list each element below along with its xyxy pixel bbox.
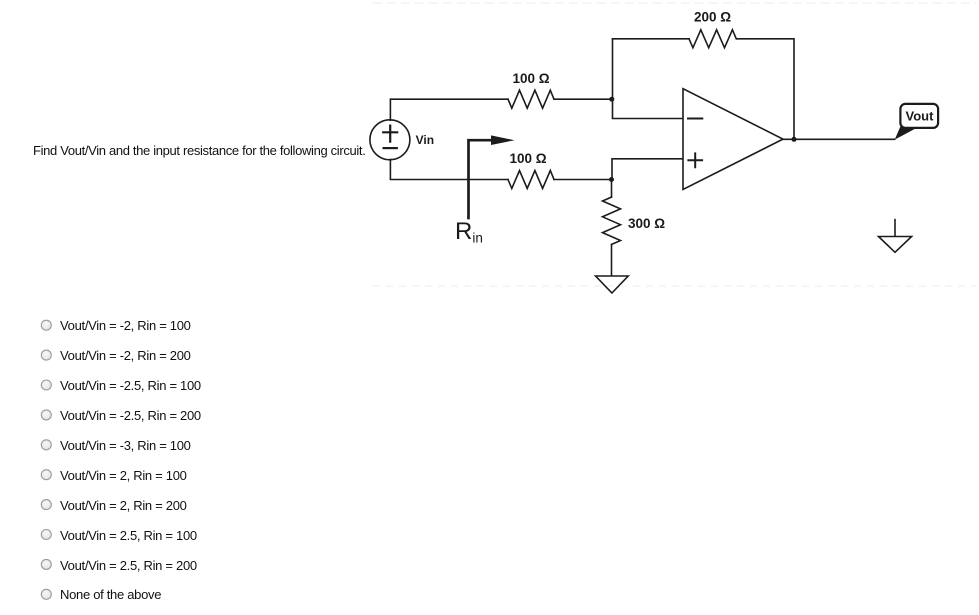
ground (output reference) — [879, 220, 912, 253]
wire source bottom to R 100 ohm lower — [390, 159, 508, 179]
resistor 200 ohm (feedback) — [689, 30, 736, 48]
op-amp U1 — [683, 89, 783, 190]
ground (below 300 ohm) — [596, 276, 629, 293]
svg-text:300 Ω: 300 Ω — [628, 216, 665, 231]
svg-text:100 Ω: 100 Ω — [510, 151, 547, 166]
svg-text:Rin: Rin — [455, 218, 483, 245]
svg-text:Vout: Vout — [906, 109, 935, 124]
node B (non-inverting input node) — [609, 177, 614, 182]
flag Vout — [895, 104, 938, 140]
wire op-amp output — [783, 138, 895, 140]
question text — [33, 143, 365, 158]
answer options — [60, 317, 191, 333]
wire R lower to node B — [554, 179, 612, 181]
Rin measurement arrow — [469, 135, 515, 218]
voltage source Vin — [370, 120, 410, 160]
svg-text:100 Ω: 100 Ω — [513, 71, 550, 86]
wire feedback right down to output node — [737, 39, 795, 140]
wire node B up to non-inverting input — [612, 159, 683, 180]
svg-text:200 Ω: 200 Ω — [694, 10, 731, 25]
wire resistor 300 ohm to ground — [611, 245, 613, 277]
wire node A down to inverting input — [613, 39, 684, 119]
resistor 300 ohm — [603, 197, 621, 244]
resistor 100 ohm (upper, inverting path) — [508, 90, 554, 108]
node A (inverting input node) — [609, 97, 614, 102]
resistor 100 ohm (lower, non-inverting path) — [508, 171, 554, 189]
svg-text:Vin: Vin — [416, 133, 434, 147]
wire R upper to node A — [554, 98, 613, 100]
wire feedback top left — [613, 38, 690, 40]
wire node B down to resistor 300 ohm — [611, 180, 613, 198]
wire source top to R 100 ohm upper — [390, 99, 508, 120]
node C (output junction) — [792, 137, 797, 142]
